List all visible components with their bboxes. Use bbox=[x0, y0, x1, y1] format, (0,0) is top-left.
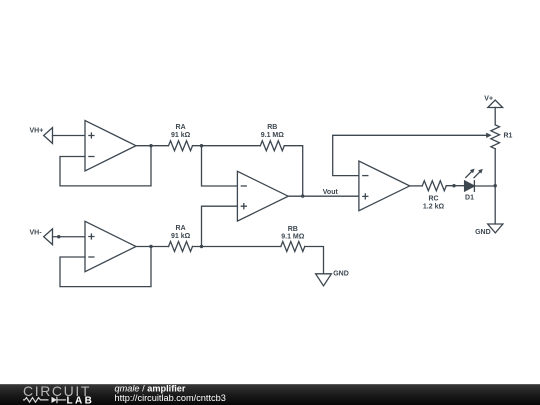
wire VH+ to op-amp U1 bbox=[53, 135, 86, 137]
svg-text:V+: V+ bbox=[484, 96, 493, 103]
op-amp U4 plus pin bbox=[363, 194, 368, 199]
svg-text:9.1 MΩ: 9.1 MΩ bbox=[261, 132, 285, 139]
wire RB top to Vout node bbox=[284, 146, 302, 196]
ground (right) bbox=[488, 224, 503, 233]
svg-text:VH+: VH+ bbox=[30, 128, 44, 135]
svg-text:91 kΩ: 91 kΩ bbox=[171, 132, 191, 139]
svg-text:91 kΩ: 91 kΩ bbox=[171, 233, 191, 240]
LED D1 body bbox=[465, 181, 475, 191]
svg-text:RB: RB bbox=[288, 226, 298, 233]
logo diode cathode bar bbox=[56, 397, 58, 404]
LED D1 arrowhead 1 bbox=[470, 169, 475, 174]
svg-text:RC: RC bbox=[428, 196, 438, 203]
resistor RC bbox=[422, 181, 446, 191]
op-amp U1 minus pin bbox=[89, 156, 94, 158]
svg-text:9.1 MΩ: 9.1 MΩ bbox=[281, 233, 305, 240]
svg-text:R1: R1 bbox=[504, 133, 513, 140]
op-amp U3 plus pin bbox=[241, 204, 246, 209]
junction RC-D1 bbox=[452, 184, 455, 187]
op-amp U3 minus pin bbox=[241, 185, 246, 187]
wire node C to ground right bbox=[494, 186, 496, 224]
wire RA bottom to RB bottom bbox=[193, 246, 281, 248]
wire RC to D1 bbox=[446, 185, 464, 187]
svg-text:GND: GND bbox=[475, 229, 491, 236]
resistor RA (bottom) bbox=[169, 242, 193, 252]
wire RB bottom to ground bbox=[305, 247, 324, 274]
svg-text:VH-: VH- bbox=[30, 229, 43, 236]
resistor RA (top) bbox=[169, 141, 193, 151]
LED D1 arrowhead 2 bbox=[478, 169, 483, 174]
wire R1 to node C bbox=[494, 149, 496, 186]
wire node B to U3 plus bbox=[202, 206, 238, 246]
wire D1 to rail bbox=[474, 185, 495, 187]
svg-text:LAB: LAB bbox=[67, 395, 95, 405]
svg-text:qmale / amplifier: qmale / amplifier bbox=[115, 384, 186, 394]
logo lead after diode bbox=[57, 399, 66, 401]
LED D1 cathode bar bbox=[473, 181, 475, 192]
svg-text:http://circuitlab.com/cnttcb3: http://circuitlab.com/cnttcb3 bbox=[115, 393, 226, 403]
op-amp U2 minus pin bbox=[89, 256, 94, 258]
svg-text:RA: RA bbox=[176, 225, 186, 232]
junction U2 output bbox=[149, 245, 152, 248]
potentiometer R1 body bbox=[491, 125, 500, 149]
logo diode symbol bbox=[52, 397, 57, 403]
LED D1 emission arrow 2 bbox=[474, 172, 480, 178]
svg-text:GND: GND bbox=[333, 270, 349, 277]
ground (bottom) bbox=[316, 274, 332, 286]
wire U4 feedback to R1 wiper bbox=[333, 135, 487, 175]
wire V+ to R1 bbox=[494, 108, 496, 125]
wire node A to U3 minus bbox=[202, 146, 238, 186]
resistor RB (bottom) bbox=[281, 242, 305, 252]
junction node B bbox=[200, 245, 203, 248]
op-amp U4 minus pin bbox=[363, 175, 368, 177]
node VH- flag bbox=[44, 229, 53, 245]
op-amp U2 plus pin bbox=[89, 234, 94, 239]
op-amp U4 body bbox=[359, 161, 410, 211]
svg-text:D1: D1 bbox=[465, 195, 474, 202]
junction node A bbox=[200, 144, 203, 147]
LED D1 emission arrow 1 bbox=[466, 172, 472, 178]
footer bar bbox=[0, 384, 540, 405]
svg-text:RB: RB bbox=[267, 124, 277, 131]
wire U4 output to RC bbox=[410, 185, 423, 187]
op-amp U1 body bbox=[85, 121, 136, 171]
resistor RB (top) bbox=[260, 141, 284, 151]
logo resistor symbol bbox=[23, 398, 49, 403]
wire U2 output bbox=[136, 246, 169, 248]
supply V+ symbol bbox=[488, 100, 503, 107]
op-amp U1 plus pin bbox=[89, 133, 94, 138]
junction Vout node bbox=[301, 194, 304, 197]
junction VH- input bbox=[57, 235, 60, 238]
junction node C bbox=[494, 184, 497, 187]
op-amp U3 body bbox=[237, 171, 288, 221]
node VH+ flag bbox=[44, 128, 53, 144]
wire VH- to op-amp U2 bbox=[53, 236, 86, 238]
wire U3 output Vout bbox=[288, 195, 359, 197]
wire U2 feedback bbox=[60, 247, 151, 287]
junction U1 output bbox=[149, 144, 152, 147]
potentiometer R1 wiper arrowhead bbox=[486, 133, 491, 138]
wire U1 feedback bbox=[60, 146, 151, 186]
wire U1 output bbox=[136, 145, 169, 147]
svg-text:Vout: Vout bbox=[323, 189, 339, 196]
svg-text:1.2 kΩ: 1.2 kΩ bbox=[423, 204, 445, 211]
wire RA to RB top bbox=[193, 145, 261, 147]
svg-text:RA: RA bbox=[176, 124, 186, 131]
op-amp U2 body bbox=[85, 221, 136, 271]
